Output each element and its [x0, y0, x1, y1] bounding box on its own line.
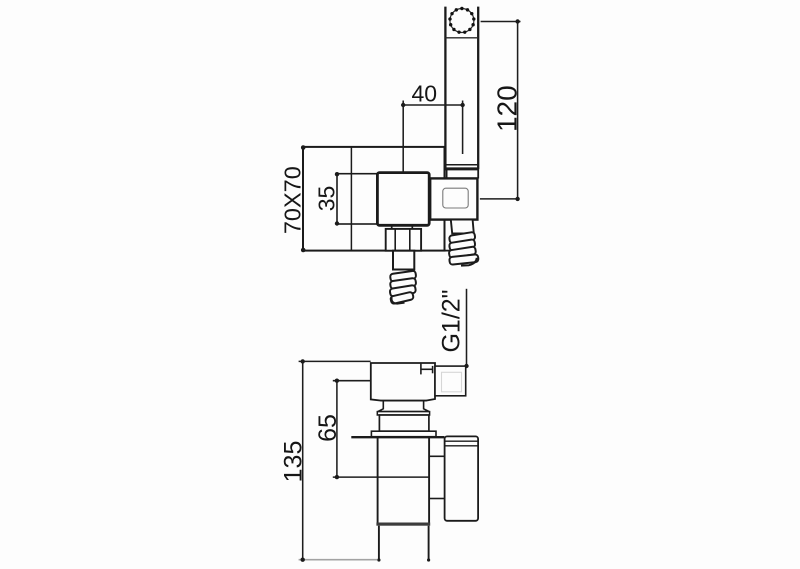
head separator line [445, 37, 478, 39]
dim 40 line [403, 104, 462, 106]
recessed box divider line [350, 147, 352, 251]
svg-text:70X70: 70X70 [280, 166, 306, 234]
dim 120 bottom leader [480, 198, 518, 200]
svg-text:40: 40 [412, 81, 438, 107]
spray nozzle dots [448, 7, 475, 34]
valve body block [371, 363, 435, 401]
knob to nut neck [391, 225, 393, 229]
thread spiral left [390, 271, 417, 305]
dim 120 line [517, 22, 519, 199]
hose neck below elbow [451, 220, 474, 234]
svg-text:135: 135 [279, 441, 307, 483]
dim 135 top extension [299, 360, 371, 362]
G1/2 leader line [466, 289, 468, 366]
handle lower neck [447, 169, 479, 178]
svg-text:65: 65 [314, 414, 342, 442]
inlet connector [435, 366, 466, 396]
section band [376, 523, 430, 526]
dim 135 ticks [301, 359, 305, 562]
column lower [377, 526, 430, 562]
dim 120 top extension [481, 21, 521, 23]
dim 35 ticks [335, 172, 339, 226]
elbow inner detail [443, 188, 468, 208]
control knob square [377, 173, 429, 226]
upper body [379, 415, 429, 431]
wall plate square 70X70 [303, 147, 445, 251]
dim 40 extension left [402, 101, 404, 173]
hand shower handle body [445, 6, 478, 170]
column upper [378, 437, 430, 522]
elbow body [430, 178, 477, 219]
dim 65 line [336, 381, 338, 477]
recessed box 35 (behind knob) [337, 174, 412, 224]
outlet connector lines [429, 455, 445, 457]
dim 65 top extension [333, 380, 371, 382]
svg-text:120: 120 [492, 85, 523, 132]
lever detail [421, 364, 433, 375]
shower holder [445, 436, 479, 520]
square bottom edge extension under hose [445, 250, 451, 252]
flange [377, 412, 429, 415]
handle bottom line [445, 164, 478, 166]
dim 65 ticks [335, 379, 339, 480]
valve block bottom edge [381, 400, 427, 402]
outlet pipe below nut [393, 251, 414, 270]
hex nut [386, 229, 421, 251]
wall plate [371, 431, 436, 437]
spray face circle [450, 9, 474, 33]
dim 135 line [302, 361, 304, 559]
dim 135 bottom extension [299, 559, 378, 561]
svg-text:35: 35 [313, 186, 339, 212]
stem [378, 401, 429, 412]
dim 120 ticks [515, 19, 519, 201]
dim 65 bottom extension [333, 476, 429, 478]
dim 40 extension right [462, 101, 464, 155]
hose spiral right [449, 232, 479, 266]
dim 40 ticks [401, 103, 465, 107]
handle bottom thick band [445, 167, 479, 170]
svg-text:G1/2": G1/2" [437, 289, 465, 352]
dim 70X70 ticks [301, 145, 306, 252]
wall line [351, 436, 444, 438]
